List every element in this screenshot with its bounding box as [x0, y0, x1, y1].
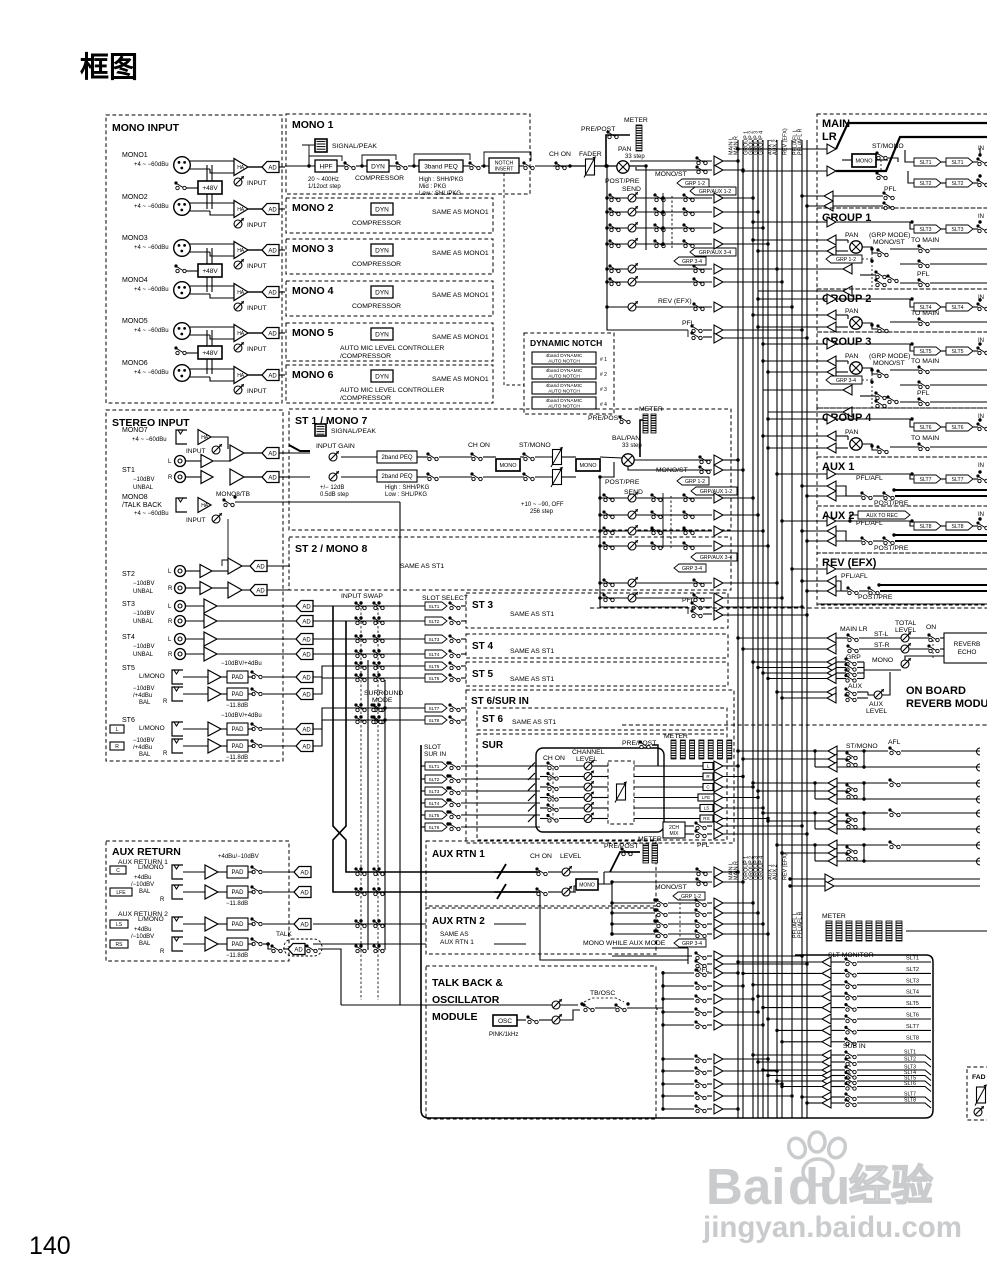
amp buffer ST5 L [208, 670, 221, 684]
svg-text:HA: HA [237, 373, 245, 379]
svg-text:TO MAIN: TO MAIN [911, 358, 939, 365]
bus GROUP 2 [757, 140, 759, 1118]
switch TO MAIN GROUP 2 [917, 317, 920, 320]
bus GROUP 1 [752, 140, 754, 1118]
svg-text:INPUT: INPUT [247, 263, 267, 270]
wire jack-amp ST5 [183, 676, 208, 678]
wire AUX RTN1 to AD [218, 871, 227, 873]
tag GRP 3-4 AUXRTN [674, 939, 706, 947]
tag SLT6 b GROUP 4 [946, 423, 973, 431]
slt monitor row SLT8 [782, 1041, 822, 1043]
svg-text:AD: AD [268, 207, 277, 213]
wire AD ST2 out [267, 565, 290, 567]
switch TO MAIN GROUP 1 [917, 244, 920, 247]
fader bottom [977, 1087, 986, 1103]
svg-text:HPF: HPF [320, 163, 333, 170]
extra taps GROUP 3 [763, 389, 843, 391]
svg-text:PINK/1kHz: PINK/1kHz [489, 1032, 518, 1038]
svg-text:(GRP MODE): (GRP MODE) [869, 232, 910, 239]
wire XLR MONO5 to HA [190, 326, 234, 328]
svg-text:3band PEQ: 3band PEQ [424, 163, 458, 170]
svg-text:REVERB: REVERB [954, 641, 981, 648]
tag SLT8 b AUX 2 [946, 522, 973, 530]
junction dots slot row 8 [359, 715, 362, 718]
svg-text:MONO 6: MONO 6 [292, 369, 334, 381]
wire AUXRTN1 [494, 871, 537, 873]
section box ST 1 / MONO 7 [289, 409, 731, 530]
svg-text:SAME AS MONO1: SAME AS MONO1 [432, 334, 489, 341]
svg-text:AD: AD [300, 922, 309, 928]
svg-text:−10dBV/+4dBu: −10dBV/+4dBu [221, 661, 262, 667]
wire ST4 to AD [217, 638, 296, 640]
AUX RTN1 in slash R [497, 884, 506, 899]
ST1 send trunk [599, 477, 601, 598]
amp buffer ST5 R [208, 687, 221, 701]
tag GRP 1-2 [677, 179, 709, 187]
SUR row slash 2 [528, 773, 535, 780]
SUR wire 5 [540, 807, 548, 809]
svg-text:TO MAIN: TO MAIN [911, 237, 939, 244]
thick pair AUX 2 [894, 534, 987, 536]
tag RS [110, 940, 128, 948]
svg-text:HA: HA [201, 435, 209, 441]
tag GRP/AUX 3-4 ST1 [691, 553, 737, 561]
section box AUX 2 [817, 506, 987, 553]
svg-text:MAIN R: MAIN R [733, 136, 739, 155]
svg-text:+4 ~ −60dBu: +4 ~ −60dBu [132, 437, 167, 443]
svg-text:SAME AS ST1: SAME AS ST1 [400, 563, 444, 570]
tag GRP GROUP 1 [826, 255, 862, 263]
slot select row SLT1 [313, 605, 425, 607]
meter bar MONO1 [636, 125, 642, 151]
svg-text:SAME AS ST1: SAME AS ST1 [510, 676, 554, 683]
REVERB ECHO box [944, 633, 987, 663]
svg-text:SUR: SUR [482, 740, 504, 751]
slot select row SLT8 [313, 720, 425, 746]
svg-text:R: R [168, 586, 173, 592]
section box DYNAMIC NOTCH [524, 333, 614, 414]
svg-text:SLT2: SLT2 [429, 777, 440, 782]
svg-text:−10dBV: −10dBV [133, 477, 155, 483]
AD converter ST3 L [296, 601, 313, 612]
bus tap row GROUP 1 0 [753, 239, 827, 241]
sub in row SLT3 [763, 1069, 822, 1071]
svg-text:R: R [163, 751, 168, 757]
svg-text:ST 3: ST 3 [472, 600, 494, 611]
svg-text:PAD: PAD [232, 942, 245, 948]
meter wire MONO1 [606, 135, 630, 166]
tag GRP 3-4 ST1 [674, 564, 706, 572]
switch after PEQ ST1 [426, 452, 429, 455]
svg-text:SLT6: SLT6 [919, 425, 931, 431]
section box ST 6 [477, 708, 727, 730]
NOTCH INSERT box MONO1 [489, 158, 519, 173]
svg-text:AD: AD [268, 373, 277, 379]
svg-text:ST 5: ST 5 [472, 669, 494, 680]
gain knob ST1 R [329, 473, 337, 481]
tag SLT2 b [946, 179, 973, 187]
AD converter MONO5 [262, 328, 279, 339]
junction dots slot row 5 [359, 661, 362, 664]
wire AUXRTN2 in [494, 923, 526, 925]
knob MONO rev [901, 660, 909, 668]
svg-text:SUR IN: SUR IN [424, 751, 446, 758]
sub in row SLT8 [807, 1102, 822, 1104]
watermark paw icon [786, 1132, 848, 1185]
svg-text:ST 1 / MONO 7: ST 1 / MONO 7 [295, 415, 368, 427]
svg-text:SAME AS MONO1: SAME AS MONO1 [432, 250, 489, 257]
svg-text:+4 ~ −60dBu: +4 ~ −60dBu [134, 370, 169, 376]
section box GROUP 3 [817, 332, 987, 408]
monitor cluster 4 taps [777, 844, 828, 846]
OSC switch [517, 1019, 526, 1021]
svg-text:AD: AD [302, 675, 311, 681]
svg-text:AD: AD [294, 947, 303, 953]
PAD box ST6 R [227, 740, 248, 752]
svg-text:RS: RS [116, 942, 124, 948]
SUR wire 6 [540, 818, 548, 820]
svg-text:High : SHH/PKG: High : SHH/PKG [419, 177, 464, 183]
tag GRP/AUX 1-2 ST1 [691, 487, 737, 495]
svg-text:SAME AS: SAME AS [440, 931, 469, 938]
AUXRTN grp trunk [611, 882, 613, 934]
svg-text:GRP 1-2: GRP 1-2 [685, 181, 705, 187]
matrix vertical ST1 [662, 493, 664, 548]
SUR ch on switch 2 [546, 772, 549, 775]
svg-text:High : SHH/PKG: High : SHH/PKG [385, 485, 430, 491]
MONO box ST1 [496, 459, 520, 471]
slot select row SLT5 [313, 666, 425, 677]
rev tap G1 [753, 661, 827, 663]
svg-text:Low : SHL/PKG: Low : SHL/PKG [419, 191, 461, 197]
svg-text:HA: HA [237, 248, 245, 254]
gain knob INPUT MONO6 [234, 386, 242, 394]
send row MONO1 A2 [607, 281, 712, 283]
svg-text:GRP 3-4: GRP 3-4 [682, 566, 702, 572]
wire AD ST1 out [279, 452, 290, 454]
svg-text:TO MAIN: TO MAIN [911, 435, 939, 442]
svg-text:256 step: 256 step [530, 509, 554, 515]
switch reverb on L [927, 633, 930, 636]
svg-text:R: R [160, 897, 165, 903]
svg-text:MONO: MONO [579, 463, 597, 469]
meter bank bars [826, 921, 832, 941]
PAD box AUX RTN2 R [227, 938, 248, 950]
svg-text:4band DYNAMIC: 4band DYNAMIC [546, 383, 583, 389]
svg-text:DYN: DYN [375, 247, 389, 254]
SUR ch on switch 4 [546, 793, 549, 796]
svg-text:HA: HA [237, 207, 245, 213]
tag SLT5 a GROUP 3 [914, 347, 941, 355]
svg-text:ST 2 / MONO 8: ST 2 / MONO 8 [295, 543, 368, 555]
svg-text:MONO 1: MONO 1 [292, 119, 334, 131]
rev tap ST-R [743, 648, 827, 650]
section box ST 2 / MONO 8 [289, 537, 731, 590]
svg-text:SLT8: SLT8 [919, 524, 931, 530]
input swap vertical A [333, 606, 540, 872]
svg-text:SLT4: SLT4 [951, 305, 963, 311]
bus AUX 2 [781, 140, 783, 1118]
svg-text:PAD: PAD [232, 744, 245, 750]
svg-text:+10 ~ −90, OFF: +10 ~ −90, OFF [521, 502, 564, 508]
svg-text:MONO 4: MONO 4 [292, 285, 334, 297]
svg-text:UNBAL: UNBAL [133, 589, 154, 595]
wire AUX RTN1 jacks [183, 871, 205, 873]
svg-text:LFE: LFE [116, 890, 126, 896]
svg-text:4band DYNAMIC: 4band DYNAMIC [546, 368, 583, 374]
sub in row SLT4 [768, 1075, 822, 1077]
switch ST5 pad [250, 670, 253, 673]
SUR out row C [634, 786, 712, 788]
send row MONO1 REV [607, 306, 712, 308]
svg-text:SLT2: SLT2 [429, 619, 440, 624]
4band DYNAMIC AUTO NOTCH box #3 [532, 382, 596, 394]
slt monitor row SLT3 [753, 984, 822, 986]
svg-text:GRP 3-4: GRP 3-4 [682, 259, 702, 265]
svg-text:LEVEL: LEVEL [560, 853, 581, 860]
svg-text:PAD: PAD [232, 922, 245, 928]
monitor cluster 2 out rows [864, 782, 888, 784]
monitor cluster 1 out rows [864, 750, 888, 752]
svg-text:MONO1: MONO1 [122, 152, 148, 159]
svg-text:BAL: BAL [139, 752, 151, 758]
svg-text:COMPRESSOR: COMPRESSOR [352, 220, 401, 227]
svg-text:框图: 框图 [80, 51, 138, 84]
svg-text:MIX: MIX [670, 831, 680, 837]
svg-text:CH ON: CH ON [549, 151, 571, 158]
svg-text:20 ~ 400Hz: 20 ~ 400Hz [308, 177, 339, 183]
svg-text:PFL/AFL R: PFL/AFL R [797, 128, 803, 155]
svg-text:ECHO: ECHO [958, 649, 977, 656]
connector XLR MONO5 [174, 323, 191, 340]
MONO box2 ST1 [576, 459, 600, 471]
bus tap row GROUP 4 1 [768, 447, 827, 449]
AD converter MONO4 [262, 287, 279, 298]
svg-text:SLT4: SLT4 [906, 990, 919, 996]
svg-text:SLT1: SLT1 [951, 160, 963, 166]
svg-text:SLT6: SLT6 [951, 425, 963, 431]
section box MONO 3 [286, 239, 493, 274]
slt monitor row SLT2 [743, 972, 822, 974]
svg-text:−11.8dB: −11.8dB [226, 953, 248, 959]
svg-text:SLT3: SLT3 [429, 789, 440, 794]
svg-text:ST6: ST6 [122, 717, 135, 724]
section box GROUP 2 [817, 289, 987, 332]
svg-text:SLT8: SLT8 [429, 718, 440, 723]
svg-text:SAME AS ST1: SAME AS ST1 [510, 648, 554, 655]
tag SLT6 a GROUP 4 [914, 423, 941, 431]
matrix vertical MONO1 [662, 193, 664, 246]
svg-text:POST/PRE: POST/PRE [605, 479, 640, 486]
svg-text:AUX RTN 1: AUX RTN 1 [440, 939, 474, 946]
meter AUXRTN [610, 852, 640, 872]
svg-text:−10dBV: −10dBV [133, 686, 155, 692]
sub in row SLT7 [802, 1096, 822, 1098]
PAD box ST5 R [227, 688, 248, 700]
svg-text:R: R [160, 949, 165, 955]
section box AUX 1 [817, 457, 987, 506]
4band DYNAMIC AUTO NOTCH box #2 [532, 367, 596, 379]
SUR row slash 4 [528, 794, 535, 801]
switch CH ON AUXRTN [535, 867, 538, 870]
SUR wire 3 [540, 786, 548, 788]
slt monitor row SLT5 [763, 1007, 822, 1009]
svg-text:IN: IN [978, 414, 984, 420]
svg-text:LR: LR [822, 131, 837, 143]
aux swap switches y892 [354, 887, 357, 890]
wire XLR MONO6 to HA [190, 368, 234, 370]
connector XLR MONO1 [174, 157, 191, 174]
sub in row SLT2 [758, 1061, 822, 1063]
bus AUX 1 [776, 140, 778, 1118]
svg-text:经验: 经验 [849, 1162, 933, 1209]
svg-text:AUX 2: AUX 2 [772, 139, 778, 155]
rev thick pair [879, 584, 987, 586]
svg-text:MONO 3: MONO 3 [292, 243, 334, 255]
AUX RTN1 in slash L [497, 864, 506, 879]
monitor feed row y1012 [663, 1011, 694, 1013]
monitor cluster 1 taps [738, 750, 828, 752]
level knobs AUXRTN [562, 868, 570, 876]
svg-text:DYNAMIC NOTCH: DYNAMIC NOTCH [530, 338, 602, 348]
svg-text:4band DYNAMIC: 4band DYNAMIC [546, 353, 583, 359]
switch reverb on R [927, 644, 930, 647]
SUR row slash 1 [528, 763, 535, 770]
AUXRTN row G4 [612, 933, 655, 935]
amp buffer ST4 L [186, 638, 204, 640]
TB/OSC switches [580, 1002, 583, 1005]
amp buffer ST6 R [208, 739, 221, 753]
svg-text:PAD: PAD [232, 692, 245, 698]
svg-text:33 step: 33 step [625, 154, 645, 160]
section box GROUP 4 [817, 408, 987, 457]
svg-text:L/MONO: L/MONO [138, 864, 164, 871]
svg-text:MONO7: MONO7 [122, 427, 148, 434]
group input row GROUP 1 [753, 221, 827, 223]
send row ST1 G4 [600, 545, 712, 547]
wire ST3 to AD [217, 605, 296, 607]
svg-text:COMPRESSOR: COMPRESSOR [352, 303, 401, 310]
SUR level knob 4 [584, 794, 592, 802]
tag C [110, 866, 126, 874]
switch TO MAIN GROUP 4 [917, 442, 920, 445]
svg-text:SLOT SELECT: SLOT SELECT [422, 595, 468, 602]
AD converter ST6 R [296, 741, 313, 752]
reverb gang dash [932, 640, 934, 660]
svg-text:+48V: +48V [202, 350, 218, 357]
tag SLT3 b GROUP 1 [946, 225, 973, 233]
svg-text:ON: ON [926, 624, 936, 631]
svg-text:SLT1: SLT1 [906, 956, 919, 962]
svg-text:PAN: PAN [618, 146, 632, 153]
pan pot MONO1 [617, 161, 629, 173]
+48V phantom supply box 1 [198, 181, 222, 194]
amp buffer ST2 L [186, 570, 200, 572]
group input row GROUP 3 [763, 343, 827, 345]
amp buffer ST1 R [186, 476, 201, 478]
AD converter TALK [270, 944, 273, 947]
svg-text:AUTO NOTCH: AUTO NOTCH [548, 388, 580, 394]
amp select ST2 [228, 558, 242, 574]
wire post fader trunk [606, 166, 608, 322]
svg-text:AD: AD [302, 619, 311, 625]
svg-text:ST/MONO: ST/MONO [846, 743, 878, 750]
section box ST 5 [466, 662, 728, 686]
svg-text:PAN: PAN [845, 353, 859, 360]
svg-text:SAME AS MONO1: SAME AS MONO1 [432, 209, 489, 216]
svg-text:PFL/AFL: PFL/AFL [856, 520, 883, 527]
svg-text:INPUT: INPUT [186, 517, 206, 524]
slot sur in row SLT4 [421, 802, 425, 804]
AUXRTN row G2 [612, 912, 655, 914]
section box AUX RTN 1 [426, 841, 656, 906]
svg-text:DYN: DYN [375, 289, 389, 296]
amp buffer ST4 R [186, 653, 204, 655]
svg-text:AD: AD [268, 248, 277, 254]
wire AD MONO3 out [279, 249, 285, 251]
switch AUX RTN1 [250, 865, 253, 868]
wire signal tap MONO1 [302, 145, 309, 166]
MONO box AUXRTN [576, 879, 598, 890]
wire AD MONO6 out [279, 374, 285, 376]
svg-text:SLT3: SLT3 [919, 227, 931, 233]
svg-text:AD: AD [300, 890, 309, 896]
wire XLR MONO1 to HA [190, 160, 234, 162]
send row ST1 A2 [600, 597, 712, 599]
monitor cluster 1 stmono switches [837, 750, 864, 752]
svg-text:AD: AD [268, 475, 277, 481]
svg-text:HA: HA [237, 165, 245, 171]
switch AUX RTN2 [250, 917, 253, 920]
SUR level knob 3 [584, 783, 592, 791]
svg-text:PAN: PAN [845, 308, 859, 315]
svg-text:SLT4: SLT4 [429, 652, 440, 657]
svg-text:FADER: FADER [579, 151, 602, 158]
switch CH ON ST1 [470, 452, 473, 455]
talkback wire [399, 502, 401, 1005]
svg-text:CH ON: CH ON [530, 853, 552, 860]
input swap vertical B [333, 621, 540, 892]
section box TALK BACK & OSCILLATOR MODULE [426, 966, 656, 1119]
svg-text:PFL: PFL [917, 390, 930, 397]
slot select row SLT6 [313, 678, 425, 694]
junction dots slot row 7 [359, 703, 362, 706]
rev afl switches [846, 586, 849, 589]
svg-text:ST2: ST2 [122, 571, 135, 578]
wire HA to AD MONO3 [248, 249, 262, 251]
svg-text:2band PEQ: 2band PEQ [381, 455, 412, 461]
tag SLT7 b AUX 1 [946, 475, 973, 483]
section box MONO INPUT [106, 115, 282, 403]
svg-text:−11.8dB: −11.8dB [226, 703, 248, 709]
section box AUX RTN 2 [426, 908, 656, 954]
section box REV (EFX) [817, 553, 987, 605]
section box FADER bottom [967, 1067, 987, 1120]
svg-text:# 1: # 1 [600, 357, 607, 363]
svg-text:AD: AD [302, 652, 311, 658]
svg-text:POST/PRE: POST/PRE [874, 545, 909, 552]
junction dots slot row 2 [359, 616, 362, 619]
svg-text:INPUT: INPUT [247, 222, 267, 229]
matrix GROUP 1 [874, 270, 877, 273]
wire AUX RTN2 to AD [218, 923, 227, 925]
aux rtn2 feed [313, 923, 426, 925]
bus tap row GROUP 2 1 [758, 326, 827, 328]
svg-text:IN: IN [978, 295, 984, 301]
wire ST1 in thick [289, 445, 310, 451]
rev tap AUX2 [782, 697, 827, 699]
svg-text:AD: AD [268, 165, 277, 171]
